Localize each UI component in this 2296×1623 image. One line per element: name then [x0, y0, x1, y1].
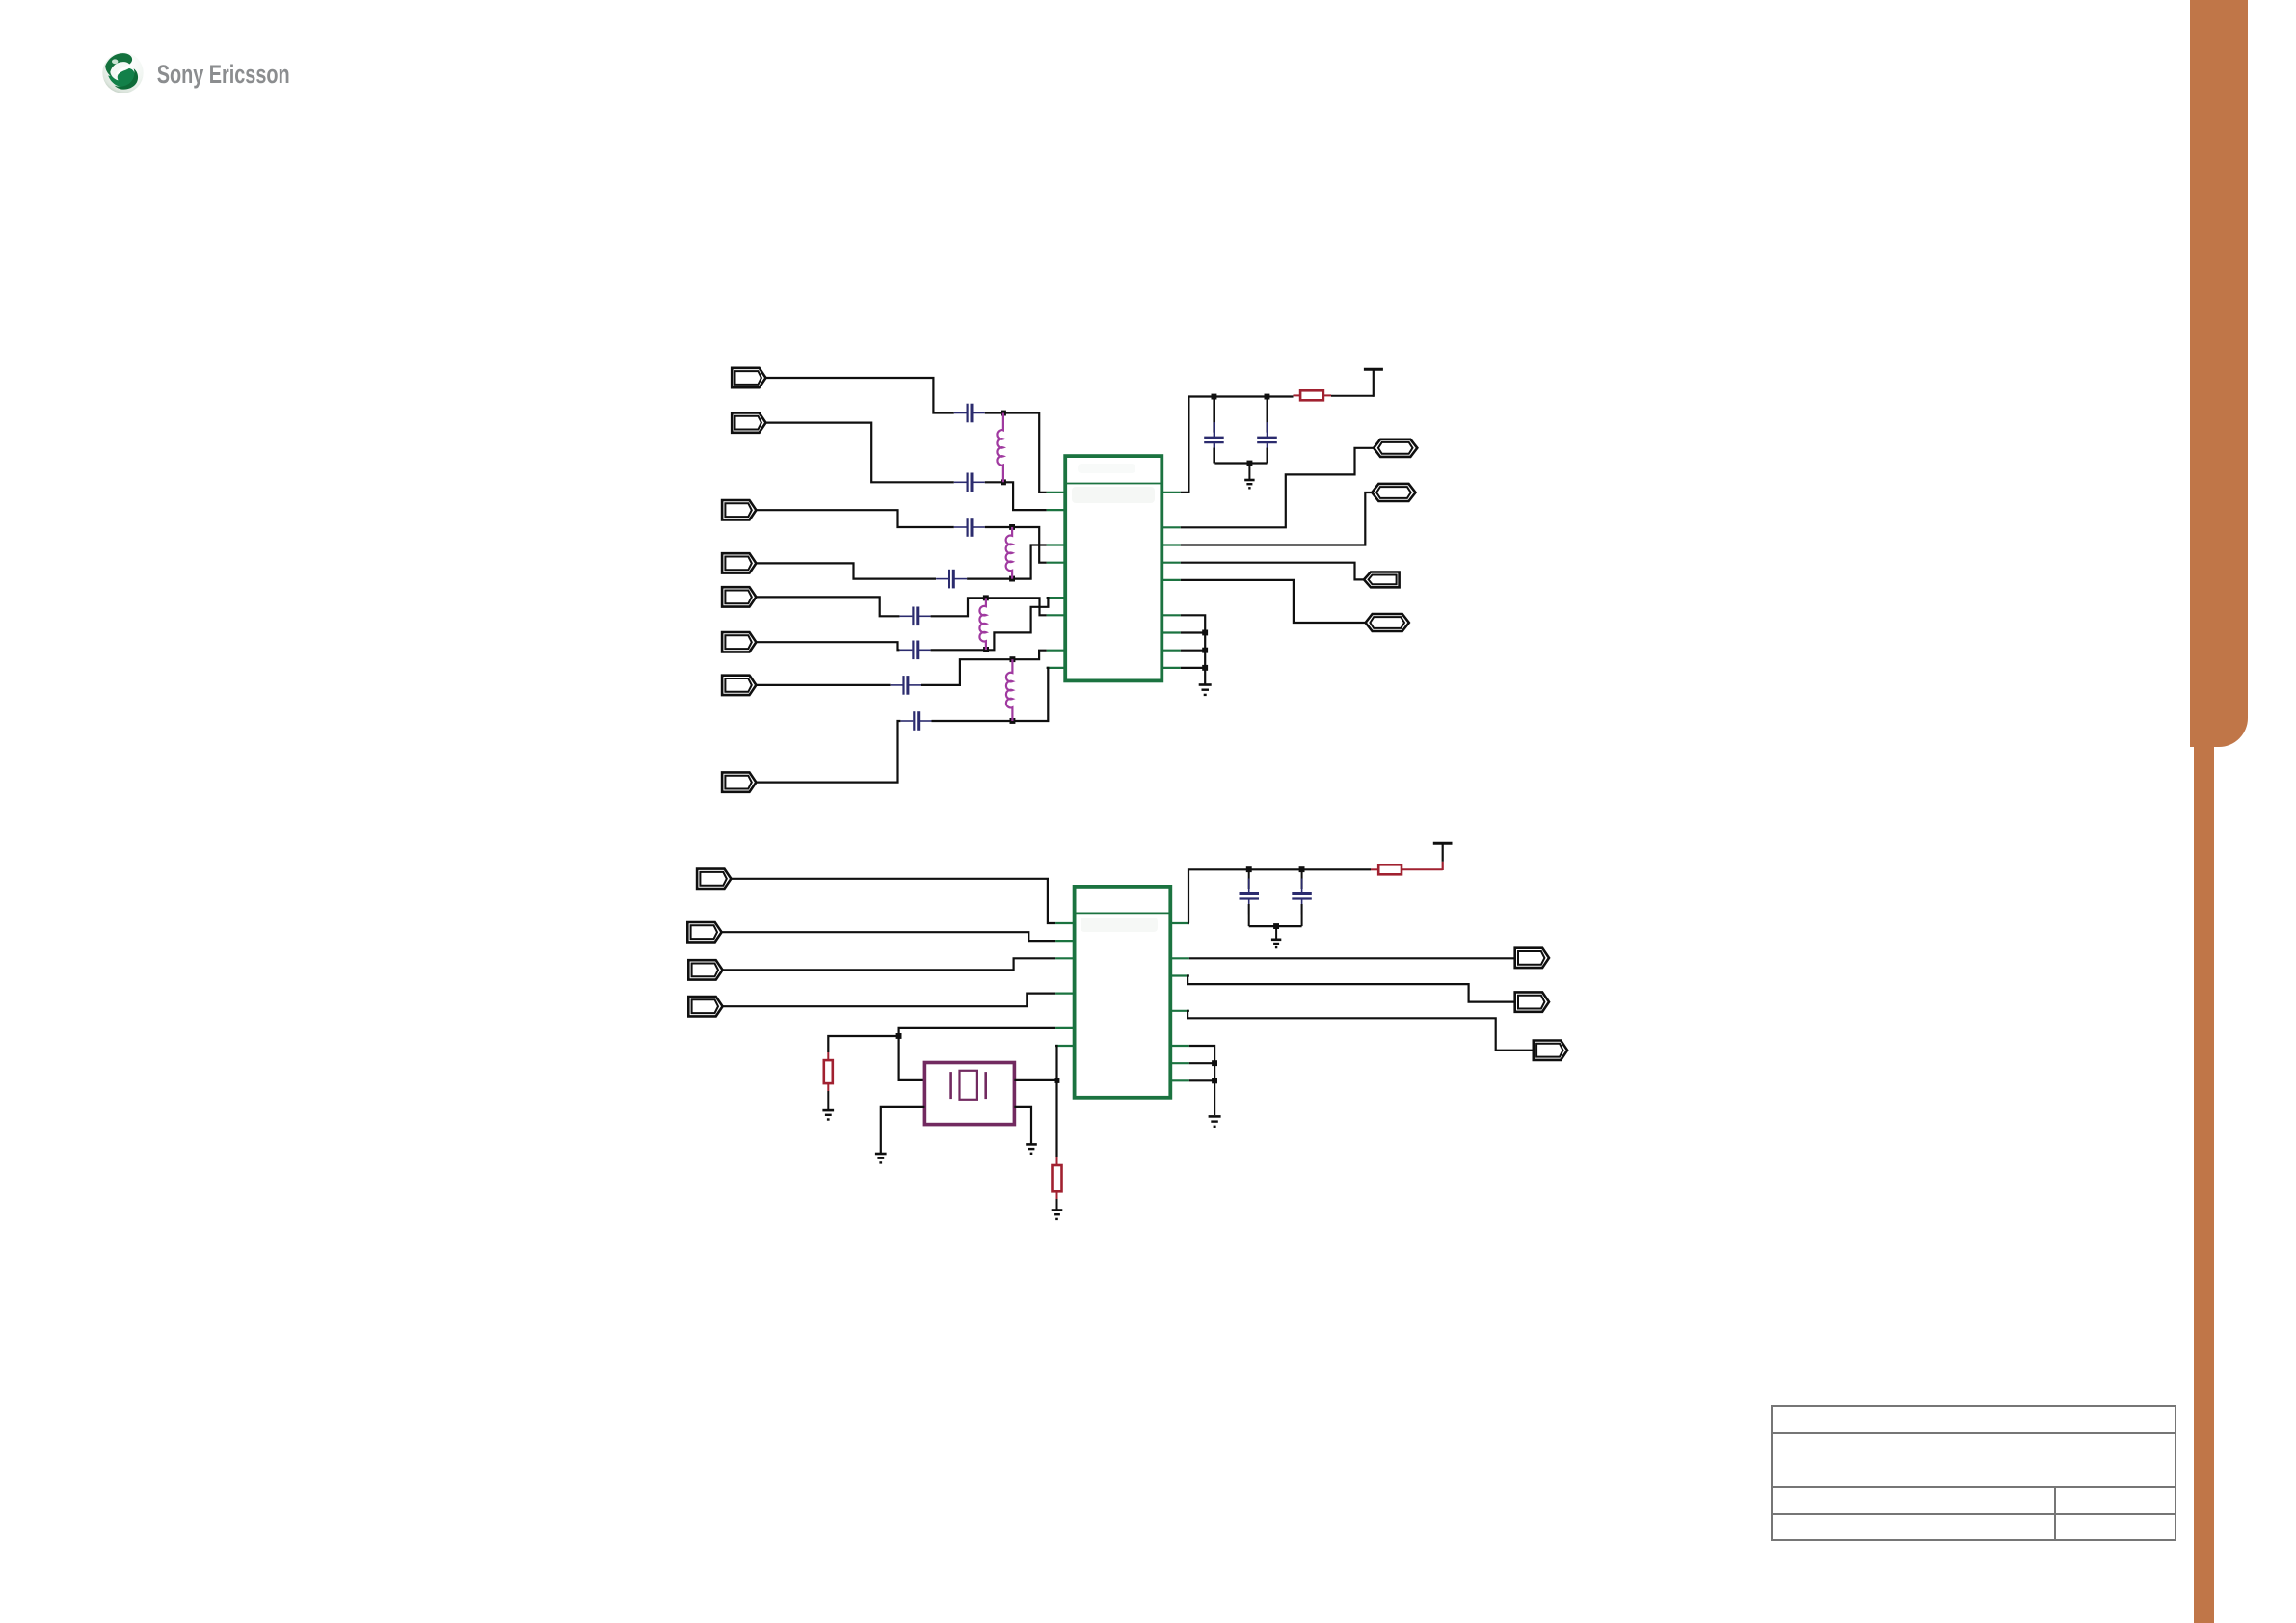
svg-text:Sony Ericsson: Sony Ericsson [157, 60, 290, 88]
